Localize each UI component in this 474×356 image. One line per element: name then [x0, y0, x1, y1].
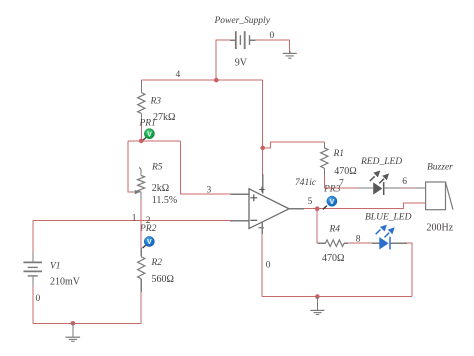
ground bottom left	[66, 323, 81, 341]
wire net6 red LED to buzzer	[384, 187, 426, 189]
wire net7 R1 to red LED	[324, 176, 373, 188]
node junction PR1	[139, 139, 144, 144]
wire net4 power rail	[141, 79, 262, 81]
probe PR2	[139, 224, 157, 248]
svg-text:11.5%: 11.5%	[152, 195, 177, 206]
wire net3 top	[128, 140, 181, 142]
net label 8	[356, 235, 361, 245]
svg-text:470Ω: 470Ω	[334, 166, 356, 177]
op-amp U1 741ic	[249, 178, 317, 228]
svg-text:1: 1	[132, 213, 137, 223]
probe PR3	[323, 184, 341, 209]
diode BLUE_LED	[365, 213, 412, 250]
net label 2	[146, 216, 151, 226]
svg-text:R4: R4	[329, 224, 341, 234]
wire net4 battery left lead	[216, 40, 230, 80]
node junction net4 opamp/R1	[260, 146, 265, 151]
svg-text:8: 8	[356, 235, 361, 245]
node junction net5	[315, 206, 320, 211]
net label 7	[339, 178, 344, 188]
diode RED_LED	[360, 157, 402, 195]
net label 0 op-amp	[266, 260, 271, 270]
battery V1	[23, 262, 80, 288]
potentiometer R5	[133, 163, 177, 206]
wire net8 R4 to blue LED	[344, 242, 379, 244]
svg-text:0: 0	[266, 260, 271, 270]
wire R3 to node	[140, 124, 142, 141]
resistor R2	[138, 221, 174, 292]
svg-text:9V: 9V	[235, 57, 248, 68]
svg-text:0: 0	[270, 31, 275, 41]
resistor R1	[321, 142, 357, 177]
svg-text:R3: R3	[150, 97, 162, 107]
wire net5 down to R4	[316, 209, 319, 244]
svg-text:741ic: 741ic	[295, 178, 317, 188]
wire net3 left to wiper	[128, 141, 133, 192]
ground top right	[283, 51, 297, 58]
wire net1 row V1 to op-amp minus	[33, 220, 249, 222]
net label 6	[402, 177, 407, 187]
svg-text:210mV: 210mV	[50, 277, 81, 288]
svg-text:27kΩ: 27kΩ	[153, 112, 175, 123]
svg-text:Buzzer: Buzzer	[427, 162, 453, 172]
svg-text:6: 6	[402, 177, 407, 187]
svg-text:BLUE_LED: BLUE_LED	[365, 213, 412, 223]
node junction net4 rail	[214, 78, 219, 83]
net label 5	[308, 197, 313, 207]
svg-text:0: 0	[36, 294, 41, 304]
svg-text:560Ω: 560Ω	[152, 274, 174, 285]
svg-text:R5: R5	[151, 163, 163, 173]
net label 1	[132, 213, 137, 223]
wire net1 left down	[32, 221, 34, 263]
wire bottom left row	[33, 322, 141, 324]
wire net4 jog to R1	[263, 142, 325, 148]
node junction ground mid	[315, 294, 320, 299]
svg-text:200Hz: 200Hz	[427, 222, 454, 233]
wire R5 to node 1	[140, 199, 142, 221]
svg-text:RED_LED: RED_LED	[360, 157, 402, 167]
svg-text:R2: R2	[151, 258, 163, 268]
svg-text:R1: R1	[333, 149, 345, 159]
svg-text:2kΩ: 2kΩ	[152, 183, 169, 194]
svg-text:V: V	[147, 239, 152, 246]
net label 4	[176, 70, 181, 80]
svg-text:470Ω: 470Ω	[322, 253, 344, 264]
wire bottom right row	[262, 296, 412, 298]
resistor R4	[318, 224, 345, 264]
net label 3	[207, 186, 212, 196]
wire R2 to bottom	[140, 292, 142, 324]
svg-text:V1: V1	[50, 262, 61, 272]
battery Power_Supply	[214, 16, 271, 68]
node junction ground left	[71, 321, 76, 326]
ground bottom mid	[310, 297, 324, 315]
wire V1 to bottom	[32, 286, 34, 324]
svg-text:V: V	[330, 199, 335, 206]
wire net5 output	[289, 203, 426, 209]
wire net0 battery to ground	[250, 40, 290, 52]
svg-text:5: 5	[308, 197, 313, 207]
svg-text:PR1: PR1	[139, 119, 156, 129]
svg-text:V: V	[147, 131, 152, 138]
wire net4 down to op-amp V+	[262, 80, 264, 193]
net label 0 top	[270, 31, 275, 41]
svg-text:PR3: PR3	[323, 184, 341, 194]
wire net3 right to op-amp +	[181, 141, 250, 194]
resistor R3	[138, 80, 176, 124]
probe PR1	[139, 119, 156, 142]
svg-text:3: 3	[207, 186, 212, 196]
net label 0 V1	[36, 294, 41, 304]
buzzer LS1	[426, 162, 454, 233]
wire blue LED to bottom	[390, 243, 412, 296]
wire op-amp V- down	[261, 222, 263, 297]
svg-text:4: 4	[176, 70, 181, 80]
svg-text:Power_Supply: Power_Supply	[214, 16, 271, 26]
svg-text:7: 7	[339, 178, 344, 188]
